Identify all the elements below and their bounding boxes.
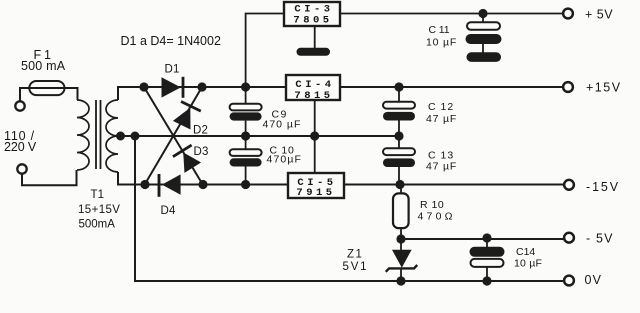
- svg-text:15+15V: 15+15V: [78, 204, 120, 216]
- wire: negative rail from secondary bottom through bridge to CI-5 and -15V terminal: [118, 172, 564, 185]
- svg-text:470µF: 470µF: [267, 154, 302, 166]
- wire: centre-tap 0V wire to C9/C10 and C12/C13 midpoints: [118, 135, 399, 137]
- diode D3: [173, 145, 202, 173]
- zener Z1 (5V1): [343, 239, 418, 281]
- node: centre tap at winding: [116, 132, 125, 141]
- node: negative rail / D3-D4 anodes: [198, 180, 207, 189]
- label: T1 15+15V 500mA: [78, 189, 120, 231]
- wire: AC input bottom lead to primary bottom: [22, 170, 77, 185]
- terminal: AC input top: [15, 101, 24, 110]
- svg-text:D1: D1: [165, 64, 180, 76]
- diode D1: [162, 64, 184, 98]
- svg-text:+ 5V: + 5V: [585, 7, 613, 21]
- diode D4: [159, 174, 181, 217]
- label: 110/220V input: [4, 129, 37, 154]
- transformer T1 secondary winding: [106, 100, 118, 172]
- svg-text:R 10: R 10: [420, 199, 444, 211]
- ground symbol below C11: [467, 52, 502, 62]
- node: Z1 cathode on 0V rail: [396, 276, 405, 285]
- capacitor C14 (10uF): [470, 238, 543, 281]
- wire: +5V feed from positive rail up to CI-3 input, out to +5V terminal: [246, 14, 563, 88]
- svg-text:470Ω: 470Ω: [418, 211, 456, 223]
- capacitor C11 (10uF): [426, 14, 502, 53]
- svg-text:7815: 7815: [294, 90, 333, 102]
- svg-text:7805: 7805: [293, 15, 332, 27]
- node: +15V rail / C12 top: [394, 82, 403, 91]
- svg-text:+15V: +15V: [586, 80, 622, 94]
- capacitor C10 (470uF): [230, 136, 302, 185]
- node: R10 bottom / -5V rail / Z1 top: [396, 234, 405, 243]
- capacitor C13 (47uF): [383, 136, 457, 185]
- svg-text:D4: D4: [161, 205, 177, 217]
- svg-text:- 5V: - 5V: [586, 232, 614, 246]
- svg-text:500mA: 500mA: [79, 219, 116, 231]
- svg-text:C14: C14: [516, 246, 535, 258]
- node: 0V / C9-C10 junction: [241, 131, 250, 140]
- svg-text:220 V: 220 V: [4, 140, 37, 154]
- diode D2: [172, 102, 201, 131]
- svg-text:10 µF: 10 µF: [426, 36, 457, 48]
- transformer core: [96, 100, 101, 169]
- svg-text:470 µF: 470 µF: [263, 118, 302, 130]
- terminal: AC input bottom: [17, 164, 26, 173]
- wire: bridge diagonal TR to BL (through D2): [145, 87, 202, 184]
- fuse F1: [21, 48, 66, 95]
- svg-text:47 µF: 47 µF: [426, 113, 457, 125]
- node: 0V / regulator grounds: [310, 131, 319, 140]
- node: secondary top / D1 anode: [139, 82, 148, 91]
- node: -5V rail / C14 top: [482, 233, 491, 242]
- svg-text:-15V: -15V: [586, 180, 620, 194]
- node: positive rail / D1-D2 cathodes: [197, 82, 206, 91]
- resistor R10 (470 ohm): [393, 185, 456, 240]
- node: secondary bottom / D4 cathode: [140, 180, 149, 189]
- ground symbol below CI-3: [297, 48, 331, 56]
- svg-text:C 12: C 12: [428, 101, 454, 113]
- terminal: +5V output: [563, 7, 613, 21]
- regulator CI-3 (7805): [284, 2, 340, 27]
- wire: AC input top lead through fuse to primary: [20, 88, 78, 101]
- svg-text:10 µF: 10 µF: [514, 257, 542, 269]
- wire: -5V rail from R10 bottom to -5V terminal: [401, 238, 564, 240]
- node: 0V / C12-C13 junction: [394, 131, 403, 140]
- svg-text:7915: 7915: [296, 187, 335, 199]
- wire: positive rail from secondary top through bridge to CI-4 and +15V terminal: [118, 87, 563, 100]
- node: +5V rail / C11 top: [478, 9, 487, 18]
- wire: CI-4 and CI-5 ground pins to 0V wire: [314, 100, 316, 173]
- regulator CI-4 (7815): [286, 75, 340, 102]
- svg-text:500 mA: 500 mA: [21, 59, 66, 73]
- transformer T1 primary winding: [77, 100, 89, 170]
- terminal: 0V output: [564, 273, 602, 287]
- node: +rail / C9 / CI-3 feed: [241, 82, 250, 91]
- svg-text:47 µF: 47 µF: [426, 160, 457, 172]
- terminal: -15V output: [564, 180, 620, 194]
- regulator CI-5 (7915): [288, 173, 344, 199]
- capacitor C9 (470uF): [230, 87, 302, 136]
- ground pin of CI-3: [314, 26, 316, 48]
- svg-text:Z1: Z1: [347, 248, 363, 260]
- node: 0V rail / C14 bottom: [482, 276, 491, 285]
- terminal: +15V output: [563, 80, 621, 94]
- node: -15V rail / C13 / R10 top: [395, 180, 404, 189]
- svg-text:T1: T1: [91, 189, 105, 201]
- capacitor C12 (47uF): [383, 87, 457, 136]
- node: centre tap 0V drop: [131, 132, 140, 141]
- svg-text:0V: 0V: [585, 273, 603, 287]
- node: -rail / C10 bottom: [241, 180, 250, 189]
- wire: bridge diagonal TL to BR (through D3): [144, 87, 203, 185]
- wire: 0V drop and bottom 0V rail to 0V terminal: [135, 136, 564, 281]
- svg-text:D3: D3: [194, 146, 209, 158]
- svg-text:D2: D2: [193, 124, 208, 136]
- svg-text:D1 a D4= 1N4002: D1 a D4= 1N4002: [121, 34, 221, 48]
- svg-text:5V1: 5V1: [343, 261, 369, 273]
- terminal: -5V output: [564, 232, 614, 246]
- svg-text:C 11: C 11: [429, 24, 450, 36]
